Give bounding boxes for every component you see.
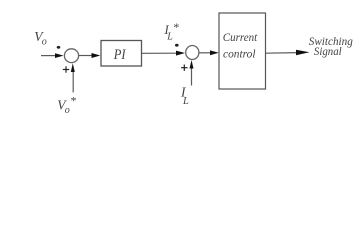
summing junction 2 [186, 46, 199, 60]
node IL* label [164, 20, 179, 43]
svg-text:L: L [182, 96, 189, 107]
node Vo label [34, 29, 47, 48]
wire summing junction 2 to current control block [199, 50, 219, 55]
node Switching Signal label [309, 36, 353, 58]
svg-text:o: o [42, 37, 47, 48]
wire output switching signal [266, 50, 310, 55]
svg-text:control: control [223, 49, 256, 61]
wire Vo* up into summing junction 1 [71, 63, 75, 92]
svg-text:Current: Current [223, 32, 258, 44]
plus sign at summing junction 1 [63, 66, 69, 72]
minus dot at summing junction 1 [57, 46, 61, 49]
summing junction 1 [64, 49, 78, 63]
node Vo* label [57, 94, 76, 116]
svg-text:*: * [70, 94, 76, 108]
wire IL up into summing junction 2 [190, 60, 194, 86]
node IL label [180, 85, 189, 107]
svg-text:Signal: Signal [314, 46, 342, 58]
minus dot at summing junction 2 [175, 44, 179, 47]
current control block [219, 13, 266, 89]
plus sign at summing junction 2 [181, 65, 187, 71]
wire summing junction 1 to PI block [79, 53, 101, 58]
wire PI block to summing junction 2 [142, 51, 185, 56]
svg-text:PI: PI [113, 47, 127, 63]
PI controller block [101, 41, 142, 67]
svg-text:*: * [173, 20, 179, 34]
current control label [223, 32, 258, 61]
wire input to summing junction 1 [41, 53, 64, 58]
